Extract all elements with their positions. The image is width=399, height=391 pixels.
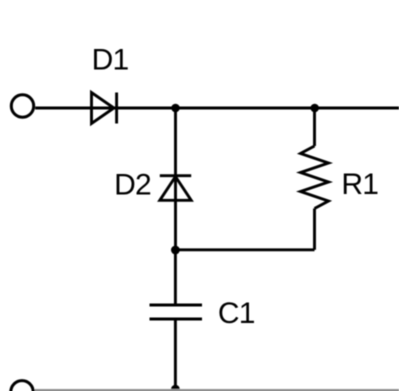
node C (middle junction) [171,246,180,255]
wire D1 cathode to node A [117,107,176,110]
node D (bottom junction, partially cut at edge) [171,385,180,391]
wire node B down to R1 top lead [313,108,316,146]
wire node A down to D2 cathode [174,108,177,200]
svg-text:C1: C1 [218,297,255,330]
terminal T1 (input, top left) [11,95,33,117]
wire node C down to C1 top plate [174,250,177,305]
wire D2 anode to node C [174,200,177,250]
capacitor C1 (two plates) [150,305,203,319]
wire C1 bottom plate to node D [174,319,177,390]
svg-text:D2: D2 [114,168,151,201]
terminal T2 (bottom left, partially visible) [11,381,33,391]
wire node C to R1 bottom (horizontal) [175,248,314,251]
diode D1 [92,93,117,124]
diode D2 (cathode bar up) [160,176,191,201]
wire T1 to D1 anode [35,107,116,110]
wire node B to right edge [315,107,399,110]
node B (top right junction) [310,104,319,113]
resistor R1 (zigzag) [301,146,329,209]
svg-text:D1: D1 [92,44,129,77]
svg-text:R1: R1 [341,168,378,201]
wire R1 bottom lead to horizontal wire [313,209,316,250]
wire bottom rail (at image edge, appears gray) [34,389,399,391]
node A (top junction) [171,104,180,113]
wire node A to node B (top rail) [176,107,315,110]
